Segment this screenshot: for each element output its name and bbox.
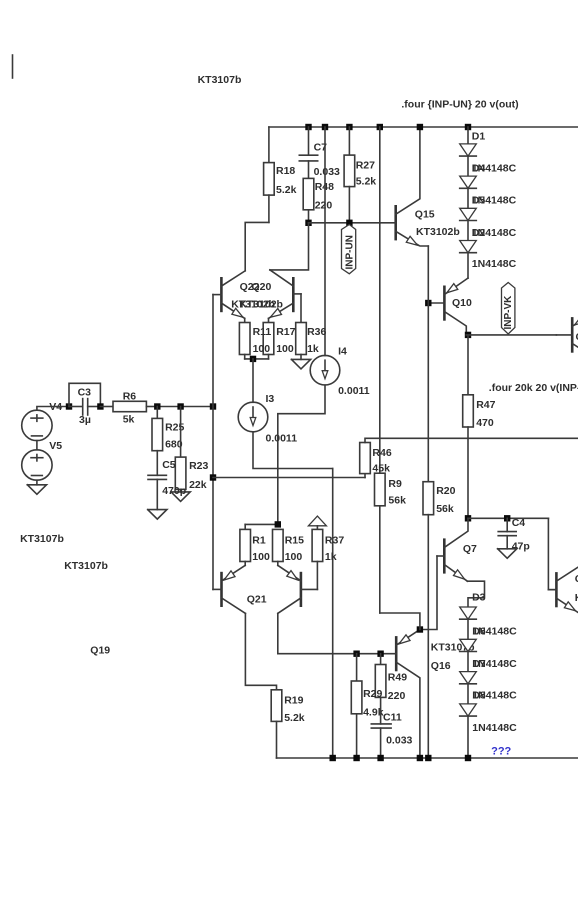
node junction rail / I4 wire	[322, 124, 328, 130]
svg-text:KT3107b: KT3107b	[198, 74, 242, 86]
text cursor mark top-left	[12, 55, 14, 78]
wire Q21 collector to R19	[245, 613, 276, 689]
wire Q7 base down	[420, 556, 437, 630]
svg-text:56k: 56k	[388, 495, 406, 507]
node junction rail / Q15 collector	[417, 124, 423, 130]
capacitor C11 0.033	[380, 697, 382, 724]
wire negative return down to bottom rail	[332, 469, 334, 759]
svg-text:1N4148C: 1N4148C	[472, 258, 517, 270]
svg-text:100: 100	[285, 551, 303, 563]
svg-text:D2: D2	[472, 227, 486, 239]
capacitor C4 47p	[506, 518, 508, 531]
diode chain lower	[467, 619, 469, 639]
node junction R47 bottom	[465, 515, 471, 521]
svg-text:R47: R47	[476, 399, 495, 411]
resistor R11 100	[244, 318, 246, 322]
svg-text:100: 100	[276, 343, 294, 355]
resistor R27 5.2k	[348, 127, 350, 155]
resistor R37 1k	[312, 529, 323, 561]
transistor Q (upper right, partially cut)	[571, 318, 574, 351]
svg-text:5.2k: 5.2k	[276, 184, 297, 196]
svg-text:Q15: Q15	[415, 208, 435, 220]
resistor R25 680	[156, 407, 158, 419]
wire bottom negative rail	[277, 757, 578, 759]
wire base bus to Q15	[309, 222, 381, 224]
svg-text:1N4148C: 1N4148C	[472, 722, 517, 734]
svg-text:D7: D7	[472, 658, 486, 670]
transistor Q16 KT3107b (PNP VAS)	[395, 637, 398, 670]
capacitor C7 0.033	[308, 127, 310, 155]
transistor Q21 KT3107b (PNP, lower pair left)	[220, 573, 223, 606]
wire feedback to R46	[213, 477, 365, 479]
svg-text:Q16: Q16	[431, 660, 451, 672]
svg-text:22k: 22k	[189, 479, 207, 491]
svg-text:Q21: Q21	[247, 593, 267, 605]
svg-text:I3: I3	[266, 393, 275, 405]
svg-text:5.2k: 5.2k	[284, 712, 305, 724]
svg-text:0.0011: 0.0011	[266, 433, 298, 445]
node junction C3 right	[97, 403, 103, 409]
node junction C4	[504, 515, 510, 521]
transistor Q22 KT3102b (NPN, diff pair left)	[220, 278, 223, 311]
svg-text:D3: D3	[472, 592, 486, 604]
svg-text:I4: I4	[338, 346, 347, 358]
wire R47 bottom to driver	[468, 517, 548, 519]
wire driver base	[548, 518, 556, 589]
wire VAS output to right transistor base	[466, 334, 556, 336]
svg-text:R18: R18	[276, 165, 295, 177]
svg-text:.four 20k 20 v(INP-: .four 20k 20 v(INP-	[489, 382, 578, 394]
diode D6 1N4148C	[467, 221, 469, 241]
node junction rail / D1 chain	[465, 124, 471, 130]
svg-text:R49: R49	[388, 672, 407, 684]
svg-text:R25: R25	[165, 422, 184, 434]
svg-text:D1: D1	[472, 130, 486, 142]
wire I3 to negative return	[253, 432, 333, 469]
diode D1 1N4148C	[467, 127, 469, 144]
wire rail down to I4	[324, 127, 326, 356]
wire C3 bypass jog	[69, 383, 100, 406]
resistor R48 220	[303, 178, 314, 209]
resistor R19 5.2k	[271, 690, 282, 722]
svg-text:0.033: 0.033	[314, 166, 340, 178]
svg-text:INP-VK: INP-VK	[503, 295, 514, 330]
svg-text:R9: R9	[388, 478, 402, 490]
resistor R23 22k	[180, 407, 182, 458]
wire I4 bottom jog to R15	[278, 385, 325, 524]
svg-text:Q7: Q7	[463, 543, 477, 555]
svg-text:1k: 1k	[307, 343, 319, 355]
svg-text:R46: R46	[372, 447, 391, 459]
node junction Q10 base / x=428 wire	[425, 300, 431, 306]
svg-text:D8: D8	[472, 689, 486, 701]
wire emitter resistor junction	[245, 358, 269, 360]
wire R9 jog to Q16 emitter	[380, 613, 420, 630]
ground below V5	[36, 480, 38, 485]
current source I4 0.0011	[310, 355, 340, 385]
svg-text:INP-UN: INP-UN	[345, 235, 356, 269]
wire input node	[157, 406, 213, 408]
diode D3 1N4148C	[460, 607, 477, 619]
resistor R29 4.9k	[353, 651, 359, 657]
ground below C4	[498, 549, 517, 559]
wire top positive rail	[269, 126, 578, 128]
transistor Q (lower right, partially cut)	[555, 573, 558, 606]
svg-text:D4: D4	[472, 162, 486, 174]
svg-text:D5: D5	[472, 195, 486, 207]
svg-text:C4: C4	[512, 517, 526, 529]
wire Q7 emitter jog to D3	[467, 581, 484, 607]
resistor R17 100	[268, 318, 270, 322]
resistor R9 56k	[375, 473, 386, 506]
svg-text:R23: R23	[189, 460, 208, 472]
net flag INP-UN	[342, 225, 356, 274]
svg-text:R29: R29	[363, 688, 382, 700]
svg-text:R6: R6	[123, 390, 137, 402]
capacitor C5 470p	[156, 451, 158, 476]
power flag above R37	[308, 516, 326, 526]
wire D chain to Q10 emitter	[467, 253, 469, 278]
svg-text:5k: 5k	[123, 413, 135, 425]
resistor R6 5k	[100, 406, 113, 408]
wire Q15 emitter down to R20	[427, 246, 429, 482]
svg-text:R37: R37	[325, 535, 344, 547]
svg-text:D6: D6	[472, 625, 486, 637]
svg-text:Q10: Q10	[452, 297, 472, 309]
svg-text:5.2k: 5.2k	[356, 176, 377, 188]
svg-text:Q19: Q19	[90, 644, 110, 656]
svg-text:R20: R20	[436, 485, 455, 497]
wire V4 to input line	[37, 407, 69, 411]
svg-text:1k: 1k	[325, 551, 337, 563]
svg-text:0.033: 0.033	[386, 734, 412, 746]
resistor R1 100	[245, 523, 278, 525]
svg-text:KT3102b: KT3102b	[416, 226, 460, 238]
resistor R18 5.2k	[268, 127, 270, 163]
svg-text:100: 100	[253, 343, 271, 355]
svg-text:V5: V5	[49, 440, 62, 452]
wire input vertical bus	[212, 295, 214, 590]
svg-text:R36: R36	[307, 326, 326, 338]
svg-text:???: ???	[491, 746, 511, 758]
svg-text:3µ: 3µ	[79, 414, 91, 426]
transistor Q7 (PNP)	[443, 540, 446, 573]
svg-text:R17: R17	[276, 326, 295, 338]
svg-text:KT3107b: KT3107b	[20, 533, 64, 545]
resistor R47 470	[467, 335, 469, 395]
svg-text:R15: R15	[285, 535, 304, 547]
transistor Q15 KT3102b (NPN)	[394, 206, 397, 239]
node junction R27 bottom / flag INP-UN	[346, 220, 352, 226]
svg-text:470: 470	[476, 417, 494, 429]
ground below R23	[171, 492, 190, 502]
voltage source V5	[22, 450, 52, 480]
svg-text:0.0011: 0.0011	[338, 385, 370, 397]
transistor Q10 (PNP)	[443, 287, 446, 320]
svg-text:C3: C3	[78, 387, 92, 399]
node junction top rail / C7	[305, 124, 311, 130]
ground below R36	[291, 359, 310, 369]
svg-text:220: 220	[388, 690, 406, 702]
svg-text:100: 100	[252, 551, 270, 563]
svg-text:.four {INP-UN} 20 v(out): .four {INP-UN} 20 v(out)	[401, 99, 518, 111]
wire lower pair collector to VAS	[278, 613, 381, 653]
svg-text:R19: R19	[284, 694, 303, 706]
svg-text:KT3107b: KT3107b	[64, 560, 108, 572]
resistor R49 220	[377, 651, 383, 657]
wire Q20 base to R36	[300, 294, 302, 323]
svg-text:C5: C5	[162, 459, 176, 471]
diode D2 1N4148C	[467, 156, 469, 176]
resistor R46 45k	[364, 474, 366, 478]
wire R18 to Q22 collector jog	[245, 222, 269, 270]
svg-text:KT3102b: KT3102b	[239, 299, 283, 311]
node junction rail / R27	[346, 124, 352, 130]
svg-text:Q20: Q20	[252, 281, 272, 293]
resistor R15 100	[273, 529, 284, 561]
svg-text:56k: 56k	[436, 503, 454, 515]
wire long vertical rail to R9	[379, 127, 381, 473]
resistor R36 1k	[296, 323, 307, 355]
node junction rail / long wire	[377, 124, 383, 130]
current source I3 0.0011	[252, 359, 254, 402]
resistor R20 56k	[423, 482, 434, 515]
node junction R47 top	[465, 332, 471, 338]
svg-text:R27: R27	[356, 159, 375, 171]
capacitor C3 3u	[69, 406, 83, 408]
node junction Q16 emitter	[417, 626, 423, 632]
net flag INP-VK	[502, 283, 515, 335]
voltage source V4	[22, 410, 52, 440]
wire jog R48 node to Q20 collector	[270, 223, 309, 270]
transistor Q20 KT3102b (NPN, diff pair right, mirrored)	[292, 278, 295, 311]
transistor Q19 KT3107b (PNP, lower pair right, mirrored)	[300, 573, 303, 606]
ground below C5	[148, 510, 167, 519]
node junction below R48	[305, 220, 311, 226]
svg-text:R11: R11	[253, 326, 272, 338]
svg-text:C11: C11	[383, 712, 402, 724]
svg-text:R1: R1	[252, 535, 266, 547]
svg-text:220: 220	[315, 200, 333, 212]
node junction C3 left	[66, 403, 72, 409]
diode D5 1N4148C	[467, 188, 469, 208]
node junction R11/R17/I3	[250, 356, 256, 362]
svg-text:470p: 470p	[162, 485, 186, 497]
node junction input / feedback	[210, 474, 216, 480]
